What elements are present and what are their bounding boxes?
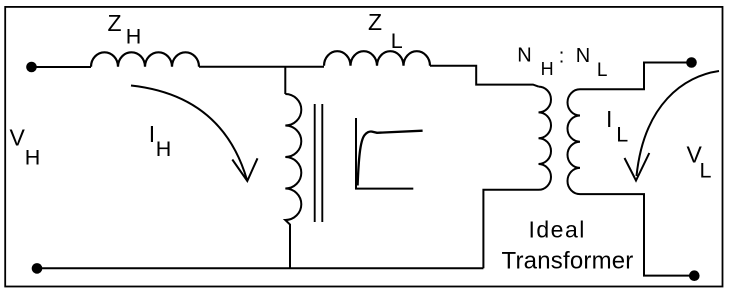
svg-text:Z: Z (108, 10, 122, 36)
svg-text:I: I (149, 121, 155, 147)
magnetizing inductor Lm (285, 94, 301, 268)
core line 2 (321, 104, 323, 222)
svg-text::: : (559, 46, 565, 68)
svg-text:L: L (597, 60, 608, 81)
svg-text:I: I (606, 106, 612, 132)
wire secondary top (580, 63, 692, 90)
svg-text:N: N (576, 45, 590, 67)
core line 1 (314, 104, 316, 222)
svg-text:Transformer: Transformer (502, 247, 634, 274)
svg-text:Ideal: Ideal (529, 216, 586, 242)
svg-text:L: L (700, 159, 712, 183)
inductor ZL (324, 51, 430, 66)
svg-text:L: L (616, 123, 628, 147)
svg-text:H: H (126, 25, 142, 49)
terminal dot bottom-left (32, 263, 43, 274)
wire (32, 66, 92, 68)
saturation curve (358, 131, 423, 186)
terminal dot top-left (26, 62, 37, 73)
terminal dot top-right (686, 57, 697, 68)
saturation curve axes (356, 118, 413, 189)
inductor ZH (91, 52, 199, 67)
svg-text:N: N (517, 44, 531, 66)
svg-text:H: H (156, 137, 172, 161)
svg-text:Z: Z (368, 9, 382, 35)
svg-text:H: H (541, 59, 554, 79)
svg-text:V: V (10, 125, 26, 151)
terminal dot bottom-right (689, 270, 700, 281)
bottom bus wire (37, 267, 483, 269)
ideal transformer secondary coil (568, 89, 581, 194)
node junction wire down (284, 67, 286, 94)
ideal transformer primary coil (539, 87, 552, 190)
wire secondary bottom (580, 194, 694, 276)
wire to ideal transformer primary (430, 66, 539, 87)
svg-text:H: H (25, 146, 41, 170)
wire primary bottom (483, 190, 538, 268)
current arrow IL (637, 71, 720, 176)
wire (199, 66, 324, 68)
current arrow IH (131, 86, 247, 181)
svg-text:L: L (391, 29, 403, 53)
